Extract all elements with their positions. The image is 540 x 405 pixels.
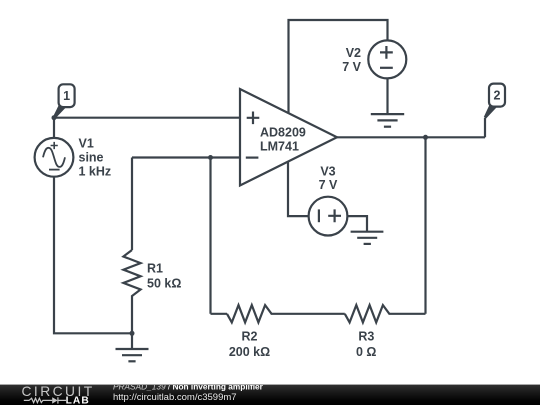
svg-text:V2: V2: [346, 46, 361, 60]
svg-text:7 V: 7 V: [342, 60, 361, 74]
svg-text:R2: R2: [242, 330, 258, 344]
svg-text:200 kΩ: 200 kΩ: [229, 345, 270, 359]
svg-text:R1: R1: [147, 262, 163, 276]
svg-text:AD8209: AD8209: [260, 125, 306, 139]
svg-text:0 Ω: 0 Ω: [356, 345, 376, 359]
svg-text:V3: V3: [320, 165, 335, 179]
svg-text:V1: V1: [79, 137, 94, 151]
svg-text:2: 2: [494, 89, 501, 103]
svg-text:1: 1: [63, 89, 70, 103]
svg-text:1 kHz: 1 kHz: [79, 164, 112, 178]
svg-text:PRASAD_139 / Non inverting amp: PRASAD_139 / Non inverting amplifier: [113, 385, 264, 392]
svg-text:50 kΩ: 50 kΩ: [147, 277, 181, 291]
svg-text:R3: R3: [358, 330, 374, 344]
svg-text:LAB: LAB: [66, 396, 90, 405]
svg-text:http://circuitlab.com/c3599m7: http://circuitlab.com/c3599m7: [113, 392, 237, 403]
svg-text:sine: sine: [79, 150, 104, 164]
svg-text:LM741: LM741: [260, 140, 299, 154]
svg-text:7 V: 7 V: [319, 178, 338, 192]
